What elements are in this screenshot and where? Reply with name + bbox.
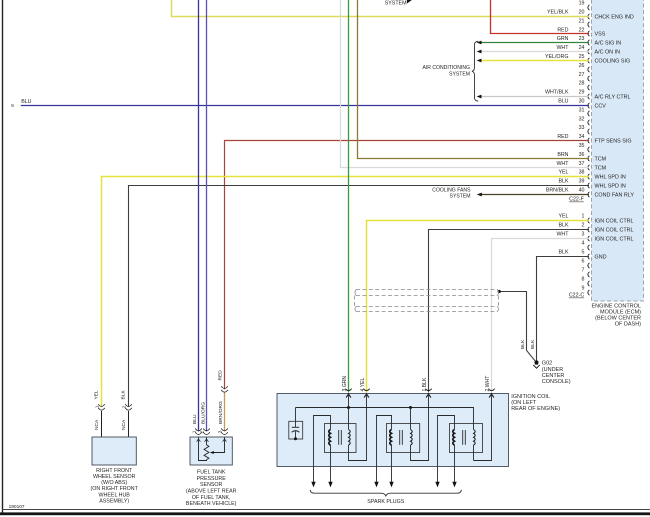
svg-text:YEL/BLK: YEL/BLK [547, 10, 569, 16]
label (cut) system with arrow, top edge [385, 0, 412, 7]
svg-text:37: 37 [579, 161, 585, 167]
wire YEL/ORG: A/C system to ECM pin 25 COOLING SIG [477, 59, 589, 63]
spark plug output 5 [435, 467, 439, 488]
svg-text:GND: GND [595, 254, 607, 260]
svg-text:A/C RLY CTRL: A/C RLY CTRL [595, 94, 631, 100]
ECM pin 31 (connector C22-F) [579, 107, 590, 116]
ECM pin 1 (connector C22-C) [558, 214, 633, 225]
wire BLK: ECM pin 39 WHL SPD IN to right front wheel sensor [121, 186, 589, 407]
ECM pin 30 (connector C22-F) [558, 99, 606, 110]
ECM engine control module box (dashed) [592, 0, 644, 301]
svg-text:25: 25 [579, 54, 585, 60]
wire WHT/BLK: A/C system to ECM pin 29 A/C RLY CTRL [477, 95, 589, 99]
wire YEL: ECM pin 1 IGN COIL CTRL to ignition coil [367, 221, 590, 393]
label RIGHT FRONT WHEEL SENSOR [91, 468, 139, 505]
svg-text:7: 7 [582, 268, 585, 274]
svg-text:6: 6 [582, 259, 585, 265]
ECM pin 23 (connector C22-F) [557, 36, 622, 46]
svg-text:YEL: YEL [94, 390, 100, 400]
fuel tank pressure sensor box [190, 437, 232, 465]
svg-text:BLU/ORG: BLU/ORG [200, 402, 206, 424]
ECM pin 22 (connector C22-F) [557, 27, 605, 37]
ECM pin 6 (connector C22-C) [582, 259, 590, 269]
label AIR CONDITIONING SYSTEM [422, 65, 470, 77]
svg-text:SENSOR: SENSOR [200, 482, 223, 488]
svg-text:9: 9 [582, 286, 585, 292]
svg-text:BLU: BLU [192, 414, 198, 424]
svg-text:BLK: BLK [558, 223, 568, 229]
svg-text:CHCK ENG IND: CHCK ENG IND [595, 14, 634, 20]
spark plug output 1 [311, 467, 315, 488]
svg-text:COND FAN RLY: COND FAN RLY [595, 192, 635, 198]
ECM pin 32 (connector C22-F) [579, 116, 590, 125]
svg-text:4 YEL: 4 YEL [360, 378, 366, 392]
ECM pin 7 (connector C22-C) [582, 268, 590, 278]
svg-text:WHEEL HUB: WHEEL HUB [99, 492, 131, 498]
ignition coil winding unit T2 [387, 424, 420, 453]
brace air conditioning system [472, 41, 478, 101]
svg-text:IGN COIL CTRL: IGN COIL CTRL [595, 236, 634, 242]
svg-text:30: 30 [579, 99, 585, 105]
label SPARK PLUGS [367, 499, 404, 505]
svg-text:WHT/BLK: WHT/BLK [545, 90, 569, 96]
svg-text:3 GRN: 3 GRN [342, 376, 348, 392]
svg-text:31: 31 [579, 107, 585, 113]
wire BRN/BLK: cooling fans system to ECM pin 40 COND FAN RLY [477, 193, 589, 197]
svg-text:5: 5 [582, 250, 585, 256]
wire BLK: ECM pin 2 IGN COIL CTRL to ignition coil [429, 230, 590, 393]
svg-text:36: 36 [579, 152, 585, 158]
fuel sensor connector pin 1 [192, 429, 202, 435]
junction node on inline connector [498, 290, 501, 293]
page border left [2, 0, 4, 514]
fuel sensor entry arrows [197, 439, 227, 442]
svg-text:BRN/ORG: BRN/ORG [218, 401, 224, 424]
svg-text:(ABOVE LEFT REAR: (ABOVE LEFT REAR [186, 489, 237, 495]
svg-text:BLK: BLK [530, 339, 536, 349]
spark plug output 2 [328, 467, 332, 488]
svg-text:28: 28 [579, 81, 585, 87]
wire BRN: from top edge to ECM pin 36 TCM [358, 0, 590, 159]
label IGNITION COIL (ON LEFT REAR OF ENGINE) [511, 394, 560, 412]
svg-text:(UNDER: (UNDER [542, 367, 563, 373]
ECM pin 24 (connector C22-F) [556, 45, 620, 55]
ECM pin 36 (connector C22-F) [557, 152, 606, 163]
svg-text:BLK: BLK [520, 339, 526, 349]
svg-text:SYSTEM: SYSTEM [450, 194, 471, 200]
inline connector wheel sensor pin 1 [95, 404, 105, 410]
right front wheel sensor box [92, 437, 136, 465]
svg-text:3: 3 [582, 232, 585, 238]
svg-text:(BELOW CENTER: (BELOW CENTER [595, 316, 641, 322]
ECM caption: ENGINE CONTROL MODULE (ECM) (BELOW CENTER OF DASH) [591, 303, 641, 327]
connector label C22-C [569, 293, 584, 299]
svg-text:OF DASH): OF DASH) [615, 322, 641, 328]
svg-text:SPARK PLUGS: SPARK PLUGS [367, 499, 404, 505]
svg-text:1: 1 [95, 405, 101, 408]
svg-text:34: 34 [579, 134, 585, 140]
svg-text:VSS: VSS [595, 31, 606, 37]
svg-text:FTP SENS SIG: FTP SENS SIG [595, 138, 632, 144]
svg-text:190107: 190107 [9, 504, 25, 510]
svg-text:YEL/ORG: YEL/ORG [545, 54, 569, 60]
svg-text:35: 35 [579, 143, 585, 149]
ignition coil winding unit T1 [325, 424, 357, 453]
ignition coil winding unit T3 [450, 424, 483, 453]
wire BLU: pin 8 (left) to ECM pin 30 CCV [11, 99, 589, 108]
svg-text:2: 2 [200, 430, 206, 433]
svg-text:BRN: BRN [557, 152, 568, 158]
svg-text:8: 8 [582, 277, 585, 283]
svg-text:1 BLK: 1 BLK [422, 377, 428, 391]
svg-text:COOLING SIG: COOLING SIG [595, 58, 631, 64]
svg-text:(ON RIGHT FRONT: (ON RIGHT FRONT [91, 486, 139, 492]
svg-text:1: 1 [192, 430, 198, 433]
svg-text:FUEL TANK: FUEL TANK [197, 470, 226, 476]
svg-text:29: 29 [579, 90, 585, 96]
drawing number 190107 [9, 504, 25, 510]
wiper arrow [210, 438, 225, 455]
ECM pin 40 (connector C22-F) [546, 188, 635, 199]
page border bottom [0, 510, 650, 516]
svg-text:YEL: YEL [558, 170, 568, 176]
ignition coil connector pin 4 YEL [360, 378, 370, 398]
svg-text:NCA: NCA [121, 419, 127, 430]
wire WHT: from top edge to ECM pin 37 TCM [341, 0, 590, 168]
svg-text:WHEEL SENSOR: WHEEL SENSOR [93, 474, 136, 480]
svg-text:(ON LEFT: (ON LEFT [511, 400, 537, 406]
svg-text:TCM: TCM [595, 165, 607, 171]
ECM pin 29 (connector C22-F) [545, 90, 631, 101]
wire GRN: from top edge to ignition coil pin 3 [348, 0, 350, 392]
svg-text:A/C SIG IN: A/C SIG IN [595, 40, 622, 46]
spark plug output 3 [374, 467, 378, 488]
inline connector fuel sensor RED/BRN-ORG [221, 386, 228, 392]
svg-text:IGN COIL CTRL: IGN COIL CTRL [595, 227, 634, 233]
svg-text:YEL: YEL [558, 214, 568, 220]
wire RED: from top edge to ECM pin 22 VSS [491, 0, 590, 34]
svg-text:NCA: NCA [94, 419, 100, 430]
svg-text:RED: RED [557, 134, 568, 140]
svg-text:SYSTEM: SYSTEM [385, 1, 407, 7]
svg-text:3: 3 [218, 430, 224, 433]
ECM pin 21 (connector C22-F) [579, 18, 590, 27]
wire GRN: A/C system to ECM pin 23 A/C SIG IN [477, 41, 589, 45]
node: bus to coil T2 secondary [409, 406, 412, 409]
T2 secondary wires [411, 393, 429, 461]
label COOLING FANS SYSTEM [432, 187, 471, 199]
ignition coil connector pin 3 GRN [342, 376, 352, 398]
svg-text:BRN/BLK: BRN/BLK [546, 188, 569, 194]
T1 primary loop wire [314, 416, 331, 467]
ECM pin 27 (connector C22-F) [579, 72, 590, 81]
svg-text:RED: RED [557, 27, 568, 33]
ECM pin 4 (connector C22-C) [582, 241, 590, 251]
wire WHT: ECM pin 3 IGN COIL CTRL to ignition coil [492, 239, 590, 393]
ECM pin 37 (connector C22-F) [556, 161, 606, 172]
svg-text:8: 8 [11, 103, 14, 108]
ECM pin 3 (connector C22-C) [556, 232, 633, 243]
fuel sensor pin1 internal wire [199, 438, 207, 461]
ECM pin 5 (connector C22-C) [558, 250, 606, 261]
svg-text:38: 38 [579, 170, 585, 176]
wire BLU/ORG: from top edge to fuel tank pressure sensor pin 2 [200, 0, 206, 431]
spark plug output 4 [389, 467, 393, 488]
svg-text:21: 21 [579, 18, 585, 24]
ignition coil box [277, 394, 509, 467]
ECM pin 19 (connector C22-F) [579, 1, 590, 11]
svg-text:WHT: WHT [556, 232, 569, 238]
svg-text:39: 39 [579, 179, 585, 185]
svg-text:19: 19 [579, 1, 585, 7]
B+ bus wire inside coil [296, 408, 474, 430]
svg-text:OF FUEL TANK,: OF FUEL TANK, [192, 495, 231, 501]
wire NCA: connector to wheel sensor terminal 2 [121, 411, 129, 437]
node: bus to coil T1 secondary [347, 406, 350, 409]
svg-text:PRESSURE: PRESSURE [197, 476, 227, 482]
svg-text:BLU: BLU [21, 99, 31, 105]
svg-text:1: 1 [582, 214, 585, 220]
ground G02 [533, 360, 539, 368]
ECM pin 9 (connector C22-C) [582, 286, 590, 296]
svg-text:SYSTEM: SYSTEM [449, 71, 470, 77]
wire YEL: ECM pin 38 WHL SPD IN to right front wheel sensor [94, 177, 589, 407]
svg-text:A/C ON IN: A/C ON IN [595, 49, 621, 55]
svg-text:WHL SPD IN: WHL SPD IN [595, 174, 626, 180]
svg-text:CONSOLE): CONSOLE) [542, 379, 571, 385]
fuel sensor connector pin 3 [218, 429, 228, 435]
svg-text:G02: G02 [542, 361, 552, 367]
svg-text:BLK: BLK [121, 390, 127, 400]
svg-text:4: 4 [582, 241, 585, 247]
wire WHT: A/C system to ECM pin 24 A/C ON IN [477, 50, 589, 54]
ECM pin 33 (connector C22-F) [579, 125, 590, 134]
svg-text:C22-C: C22-C [569, 293, 584, 299]
ECM pin 8 (connector C22-C) [582, 277, 590, 287]
svg-text:BLK: BLK [558, 250, 568, 256]
ECM pin 28 (connector C22-F) [579, 81, 590, 91]
inline connector (dashed pass-through) [355, 290, 499, 312]
svg-text:BENEATH VEHICLE): BENEATH VEHICLE) [186, 501, 237, 507]
svg-text:BLU: BLU [558, 99, 568, 105]
brace spark plugs [310, 490, 461, 497]
fuel sensor connector pin 2 [200, 429, 210, 435]
svg-text:WHL SPD IN: WHL SPD IN [595, 183, 626, 189]
wire BRN/ORG: inline connector to fuel tank pressure sensor pin 3 [218, 392, 224, 431]
wire RED: ECM pin 34 FTP SENS SIG to fuel tank pressure sensor [218, 141, 589, 390]
svg-text:WHT: WHT [556, 161, 569, 167]
svg-text:IGNITION COIL: IGNITION COIL [511, 394, 550, 400]
T3 primary loop wire [438, 416, 455, 467]
svg-text:32: 32 [579, 116, 585, 122]
wire NCA: connector to wheel sensor terminal 1 [94, 411, 102, 437]
svg-text:ENGINE CONTROL: ENGINE CONTROL [591, 303, 641, 309]
svg-text:22: 22 [579, 27, 585, 33]
svg-text:(W/O ABS): (W/O ABS) [101, 480, 127, 486]
ECM pin 20 (connector C22-F) [547, 10, 634, 21]
svg-text:2: 2 [582, 223, 585, 229]
ignition coil connector pin 2 WHT [485, 376, 495, 398]
ECM pin 2 (connector C22-C) [558, 223, 633, 234]
svg-text:WHT: WHT [556, 45, 569, 51]
svg-text:RIGHT FRONT: RIGHT FRONT [96, 468, 133, 474]
svg-text:20: 20 [579, 10, 585, 16]
T1 secondary wires [349, 393, 367, 461]
svg-text:BLK: BLK [558, 179, 568, 185]
svg-text:24: 24 [579, 45, 585, 51]
svg-text:GRN: GRN [557, 36, 569, 42]
svg-text:RED: RED [218, 370, 224, 381]
resistor (potentiometer element) [204, 438, 209, 460]
svg-text:33: 33 [579, 125, 585, 131]
svg-text:23: 23 [579, 36, 585, 42]
T3 secondary wires [474, 393, 492, 461]
svg-text:IGN COIL CTRL: IGN COIL CTRL [595, 218, 634, 224]
ECM pin 25 (connector C22-F) [545, 54, 630, 64]
wire BLK: ECM pin 5 GND to ground G02 [530, 257, 589, 362]
svg-text:26: 26 [579, 63, 585, 69]
capacitor (noise suppressor) [289, 408, 303, 441]
svg-text:COOLING FANS: COOLING FANS [432, 187, 471, 193]
svg-text:REAR OF ENGINE): REAR OF ENGINE) [511, 406, 560, 412]
wire BLU: from top edge to fuel tank pressure sensor pin 1 [192, 0, 199, 431]
connector label C22-F [569, 197, 584, 203]
ECM pin 39 (connector C22-F) [558, 179, 625, 190]
svg-text:2: 2 [122, 405, 128, 408]
svg-text:27: 27 [579, 72, 585, 78]
spark plug output 6 [452, 467, 456, 488]
T2 primary loop wire [377, 416, 392, 467]
svg-text:2 WHT: 2 WHT [485, 376, 491, 392]
svg-text:CENTER: CENTER [542, 373, 565, 379]
ignition coil connector pin 1 BLK [422, 377, 432, 398]
svg-text:AIR CONDITIONING: AIR CONDITIONING [422, 65, 470, 71]
ECM pin 35 (connector C22-F) [579, 143, 590, 152]
ECM pin 38 (connector C22-F) [558, 170, 625, 181]
svg-text:MODULE (ECM): MODULE (ECM) [600, 310, 641, 316]
svg-text:ASSEMBLY): ASSEMBLY) [99, 498, 129, 504]
wire YEL/BLK: from top edge to ECM pin 20 CHCK ENG IND [172, 0, 590, 17]
label FUEL TANK PRESSURE SENSOR [186, 470, 237, 508]
ECM pin 34 (connector C22-F) [557, 134, 631, 144]
inline connector wheel sensor pin 2 [122, 404, 132, 410]
svg-text:TCM: TCM [595, 156, 607, 162]
label G02 (UNDER CENTER CONSOLE) [542, 361, 571, 386]
svg-text:CCV: CCV [595, 103, 607, 109]
svg-text:C22-F: C22-F [569, 197, 584, 203]
svg-text:40: 40 [579, 188, 585, 194]
wire BLK: shield drain from inline connector to ground G02 [499, 292, 535, 361]
ECM pin 26 (connector C22-F) [579, 63, 590, 72]
